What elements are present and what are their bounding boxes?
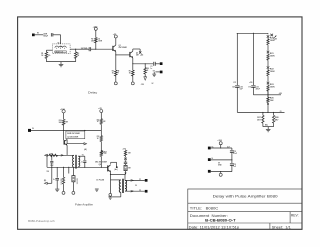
- node B1: [95, 49, 96, 50]
- wire R16 to emitter rail with arrow: [125, 171, 127, 175]
- svg-text:Q4: Q4: [99, 163, 101, 166]
- node Q1E: [115, 54, 116, 55]
- svg-text:150: 150: [47, 171, 50, 173]
- wire Q4 emitter rail: [110, 172, 112, 193]
- connector PWR2 terminal: [208, 158, 211, 161]
- wire C1 to delay line: [51, 33, 60, 36]
- flag B arrow: [102, 152, 104, 154]
- wire Q1 emitter down: [115, 52, 117, 55]
- svg-text:2K2: 2K2: [50, 153, 53, 155]
- wire Q2 emitter down: [132, 58, 134, 64]
- wire R14 to base rail: [100, 156, 102, 167]
- wire chain stub: [267, 33, 269, 34]
- wire R3 to node B1: [95, 43, 97, 49]
- net flag A: [84, 143, 87, 145]
- connector OUT2 terminal: [160, 71, 163, 74]
- ground C6: [55, 188, 59, 190]
- svg-text:+150: +150: [60, 109, 66, 111]
- wire T1 primary bottom to R9: [72, 167, 74, 175]
- svg-text:10K: 10K: [270, 100, 274, 102]
- svg-text:C3: C3: [150, 66, 152, 68]
- wire DL1 output: [70, 48, 76, 50]
- node C7 junction: [84, 167, 85, 168]
- svg-text:TITLE: B080C: TITLE: B080C: [190, 206, 219, 210]
- svg-text:100K: 100K: [270, 87, 275, 89]
- svg-text:50: 50: [135, 185, 137, 187]
- wire V4 to R10: [63, 113, 65, 120]
- resistor R1: [45, 52, 48, 58]
- wire C2 to node B1: [91, 48, 96, 50]
- terminal X +45: [139, 51, 141, 53]
- node chain X: [267, 51, 270, 54]
- svg-text:+45: +45: [140, 53, 143, 56]
- resistor R20: [267, 38, 269, 39]
- node Q4 emitter junction: [110, 174, 111, 175]
- svg-text:0V: 0V: [152, 83, 154, 85]
- svg-text:R5: R5: [129, 71, 131, 73]
- ground delay bottom: [60, 62, 62, 65]
- wire C10 down to bottom rail: [236, 87, 238, 112]
- resistor R16 box style: [124, 165, 127, 170]
- node R14 junction: [101, 167, 102, 168]
- resistor R22: [267, 69, 269, 70]
- pin P5: [72, 182, 74, 192]
- title block box: [188, 189, 302, 229]
- capacitor X lower: [124, 161, 127, 163]
- svg-text:B-CB-B080-O-T: B-CB-B080-O-T: [205, 218, 237, 222]
- node annotation box corner: [84, 130, 85, 131]
- pin P6: [109, 193, 112, 196]
- svg-text:B080-PulseAmp.sch: B080-PulseAmp.sch: [28, 220, 55, 223]
- svg-text:1n: 1n: [81, 161, 83, 163]
- svg-text:(A): (A): [84, 148, 87, 151]
- resistor R13: [100, 131, 102, 136]
- wire node B1 to Q1 base: [96, 48, 113, 50]
- svg-text:150: 150: [104, 153, 107, 155]
- node chain X: [267, 66, 270, 69]
- svg-text:+150: +150: [93, 26, 99, 28]
- svg-text:Q3 2SC1096R: Q3 2SC1096R: [67, 137, 79, 139]
- wire vertical feed 1: [236, 33, 238, 85]
- node Q2E: [132, 63, 133, 64]
- node PWR3 junction: [220, 171, 221, 172]
- node R8 stem: [63, 167, 64, 168]
- resistor R14: [100, 151, 102, 156]
- svg-text:1n: 1n: [53, 179, 55, 181]
- power +25 V5: [100, 110, 103, 113]
- svg-text:+150: +150: [279, 93, 283, 95]
- wire R1 to bottom rail: [45, 58, 47, 61]
- svg-text:10nF: 10nF: [50, 165, 54, 167]
- capacitor C12: [231, 148, 233, 150]
- connector PWR3 terminal: [208, 170, 211, 173]
- transformer T2 primary winding: [119, 180, 121, 193]
- svg-text:C12: C12: [233, 151, 236, 153]
- terminal X +300 with arrow: [270, 34, 273, 37]
- svg-text:Pulse Amplifier: Pulse Amplifier: [75, 202, 93, 206]
- connector OUT3 terminal: [145, 179, 148, 182]
- wire chain to node D1: [267, 91, 269, 95]
- wire Q3 collector to flag A: [66, 139, 68, 143]
- node D2: [267, 112, 268, 113]
- svg-text:1K: 1K: [97, 121, 99, 123]
- svg-text:R13: R13: [97, 136, 100, 138]
- bottom rail wire: [46, 61, 75, 63]
- ground Q4 emitter: [108, 196, 112, 198]
- wire Q2 collector route: [132, 49, 134, 51]
- svg-text:100K: 100K: [270, 56, 275, 58]
- wire Q1 collector to V2: [115, 38, 117, 45]
- svg-text:100 FB: 100 FB: [61, 178, 63, 185]
- pin P4: [63, 184, 65, 191]
- svg-text:100 FB: 100 FB: [77, 177, 79, 184]
- transistor Q2: [129, 52, 131, 57]
- resistor R10: [62, 119, 65, 125]
- wire input to bias chain: [31, 130, 101, 132]
- wire into delay line DL1: [60, 35, 62, 44]
- svg-text:Sheet: 1/1: Sheet: 1/1: [272, 225, 291, 229]
- annotation box Q3 part info: [66, 131, 85, 139]
- svg-text:560pF: 560pF: [43, 35, 48, 37]
- wire bottom rail: [237, 111, 268, 113]
- ground right column: [267, 127, 269, 130]
- resistor R5: [132, 64, 134, 70]
- wire J1 to C1: [32, 34, 43, 37]
- node trim right: [273, 112, 274, 113]
- wire Q3 emitter to T1: [66, 145, 68, 155]
- resistor R12: [100, 119, 102, 125]
- svg-text:1:1 PULSE: 1:1 PULSE: [96, 180, 104, 182]
- svg-text:2SC1096R: 2SC1096R: [119, 47, 128, 49]
- border frame: [18, 17, 302, 229]
- svg-text:3K3 2SC1096R: 3K3 2SC1096R: [95, 161, 108, 163]
- wire OUT2 stub: [155, 71, 159, 73]
- node Ac stem: [116, 162, 118, 167]
- node C3: [145, 63, 146, 64]
- connector J2 input terminal: [28, 129, 31, 132]
- connector OUT1 terminal: [160, 62, 163, 65]
- pin P1: [115, 76, 117, 82]
- ground OUT2: [153, 72, 155, 74]
- wire T1 primary top: [47, 154, 74, 156]
- svg-text:300R 2SC1096R: 300R 2SC1096R: [67, 133, 81, 135]
- svg-text:REV:: REV:: [291, 214, 299, 218]
- node trim left: [262, 112, 263, 113]
- capacitor C7: [83, 160, 86, 162]
- transistor Q4: [107, 165, 109, 171]
- node D1: [267, 94, 268, 95]
- wire C13 to PWR3 rail: [231, 165, 233, 171]
- ground floating: [95, 188, 99, 190]
- wire tap to C2: [76, 48, 89, 50]
- wire R26 to node D2: [267, 102, 269, 105]
- wire trim bottom: [262, 123, 264, 126]
- svg-text:100K: 100K: [270, 71, 275, 73]
- wire Q1E to R4: [115, 55, 117, 70]
- transformer T2 secondary winding: [125, 180, 127, 191]
- transformer T1 core: [75, 155, 77, 169]
- pin P3: [220, 172, 222, 174]
- wire bottom rail stub: [268, 111, 285, 113]
- wire Q3 base stem: [63, 131, 65, 141]
- node top rail junction: [253, 33, 254, 34]
- wire R10 to node: [63, 125, 65, 130]
- wire PWR1: [211, 147, 232, 149]
- resistor R4: [115, 70, 118, 76]
- delay line DL1 dashed module box: [52, 44, 70, 54]
- svg-text:1uF: 1uF: [233, 166, 236, 168]
- svg-text:Delay with Pulse Amplifier B08: Delay with Pulse Amplifier B080: [213, 194, 278, 198]
- arrow to -V: [144, 74, 146, 77]
- svg-text:P2: P2: [139, 190, 141, 192]
- wire vertical feed 2: [252, 33, 254, 85]
- terminal X mid chain: [125, 156, 127, 158]
- wire T1 secondary top tap: [78, 155, 85, 157]
- resistor R15: [125, 149, 127, 152]
- capacitor C6: [56, 167, 58, 177]
- capacitor C2: [88, 47, 90, 51]
- delay line DL1 internal element: [55, 51, 67, 53]
- svg-text:100K: 100K: [270, 40, 275, 42]
- svg-text:R12: R12: [97, 119, 100, 121]
- arrow mark loop top left: [45, 154, 48, 156]
- power +150 V4: [62, 110, 65, 113]
- svg-text:R10: R10: [59, 120, 62, 122]
- transformer T1 secondary winding: [78, 156, 80, 166]
- svg-text:-150: -150: [141, 84, 144, 86]
- wire PWR3: [211, 171, 232, 173]
- wire V3 stem: [220, 145, 222, 148]
- capacitor C3: [153, 62, 155, 66]
- wire C12 to PWR2 rail: [231, 152, 233, 160]
- svg-text:4K7: 4K7: [257, 118, 260, 121]
- wire V5 to R12: [100, 113, 102, 119]
- arrow mark out bottom: [131, 190, 134, 192]
- resistor R21: [267, 53, 269, 54]
- resistor R6: [144, 64, 146, 68]
- resistor R27 trim left leg: [262, 112, 264, 115]
- wire Q2E to node C3: [133, 63, 153, 65]
- transformer T2 core: [121, 179, 123, 193]
- svg-text:56: 56: [147, 68, 149, 70]
- wire T2 secondary bottom to OUT4: [125, 190, 145, 192]
- capacitor C10: [235, 85, 239, 87]
- capacitor C13: [231, 160, 233, 163]
- node chain X: [267, 82, 270, 85]
- svg-text:P1: P1: [139, 179, 141, 181]
- node PWR1 junction: [220, 147, 221, 148]
- wire C3 to OUT1: [155, 63, 160, 65]
- wire chain segment: [267, 45, 269, 51]
- wire chain segment: [267, 76, 269, 82]
- capacitor C11: [251, 85, 255, 87]
- svg-text:+150: +150: [249, 82, 253, 84]
- svg-text:1K: 1K: [97, 138, 99, 140]
- wire PWR2: [211, 159, 232, 161]
- wire C7 to base rail: [84, 163, 86, 168]
- wire chain segment: [267, 60, 269, 66]
- wire V1 to R3: [95, 30, 97, 37]
- svg-text:2K2: 2K2: [91, 40, 94, 42]
- svg-text:175: 175: [248, 86, 251, 88]
- wire chain segment: [267, 91, 269, 97]
- svg-text:-175: -175: [233, 82, 236, 84]
- wire node D1 stub right: [268, 94, 281, 96]
- capacitor C5: [51, 155, 53, 160]
- svg-text:R3: R3: [91, 38, 93, 40]
- svg-text:B+: B+: [212, 146, 214, 148]
- node chain X: [267, 35, 270, 38]
- wire base rail: [47, 166, 108, 168]
- resistor R9 box style: [72, 176, 75, 182]
- node Q3 base junction: [63, 130, 64, 131]
- net flag left arrow: [47, 182, 52, 184]
- connector PWR1 terminal: [208, 147, 211, 150]
- wire tap to T2 primary: [111, 179, 121, 181]
- connector OUT4 terminal: [145, 190, 148, 193]
- wire loop left edge: [46, 155, 48, 167]
- node PWR2 junction: [231, 159, 232, 160]
- svg-text:Q2: Q2: [136, 52, 138, 54]
- svg-text:DL1: DL1: [58, 43, 61, 45]
- transformer T1 primary winding: [73, 155, 75, 167]
- power +150 V1: [94, 27, 97, 30]
- arrow mark on loop wire: [61, 154, 64, 156]
- delay line DL1 inductor winding: [55, 46, 66, 48]
- wire T2 secondary top to OUT3: [125, 179, 145, 181]
- resistor R8: [63, 167, 65, 177]
- svg-text:IN: IN: [32, 128, 34, 130]
- resistor R26: [267, 95, 269, 97]
- wire top rail: [237, 32, 268, 34]
- transistor Q3: [63, 140, 65, 145]
- power +25 V2: [114, 35, 117, 38]
- svg-text:Date: 11/01/2012 13:10:51p: Date: 11/01/2012 13:10:51p: [189, 225, 240, 229]
- resistor R2: [75, 49, 77, 52]
- resistor R23: [267, 84, 269, 85]
- wire R12 to input rail: [100, 124, 102, 130]
- node tap junction: [75, 49, 76, 50]
- node flag B2 stem: [51, 167, 52, 168]
- wire DL1 left to R1: [46, 49, 52, 51]
- wire T2 primary bottom: [120, 192, 122, 197]
- wire Q1E to Q2 base: [116, 54, 130, 56]
- wire Q4 collector route: [110, 162, 112, 164]
- transistor Q1: [112, 46, 114, 51]
- resistor R11: [49, 154, 58, 156]
- resistor R28 trim right leg: [273, 112, 275, 115]
- svg-text:Delay: Delay: [88, 90, 98, 94]
- svg-text:56: 56: [98, 38, 100, 40]
- wire flag stem down: [51, 167, 53, 183]
- svg-text:4K7: 4K7: [275, 118, 278, 121]
- svg-text:0V: 0V: [280, 111, 282, 113]
- power +150 V3: [219, 142, 222, 145]
- resistor R3: [95, 38, 98, 43]
- wire T2 secondary top stem: [124, 174, 126, 180]
- svg-text:C13: C13: [233, 164, 236, 166]
- arrow mark out top: [131, 180, 134, 182]
- pin P2: [132, 76, 134, 82]
- stub wire under rail: [68, 167, 69, 168]
- wire R13 to R14: [100, 142, 102, 152]
- wire C11 to node D1: [252, 87, 254, 94]
